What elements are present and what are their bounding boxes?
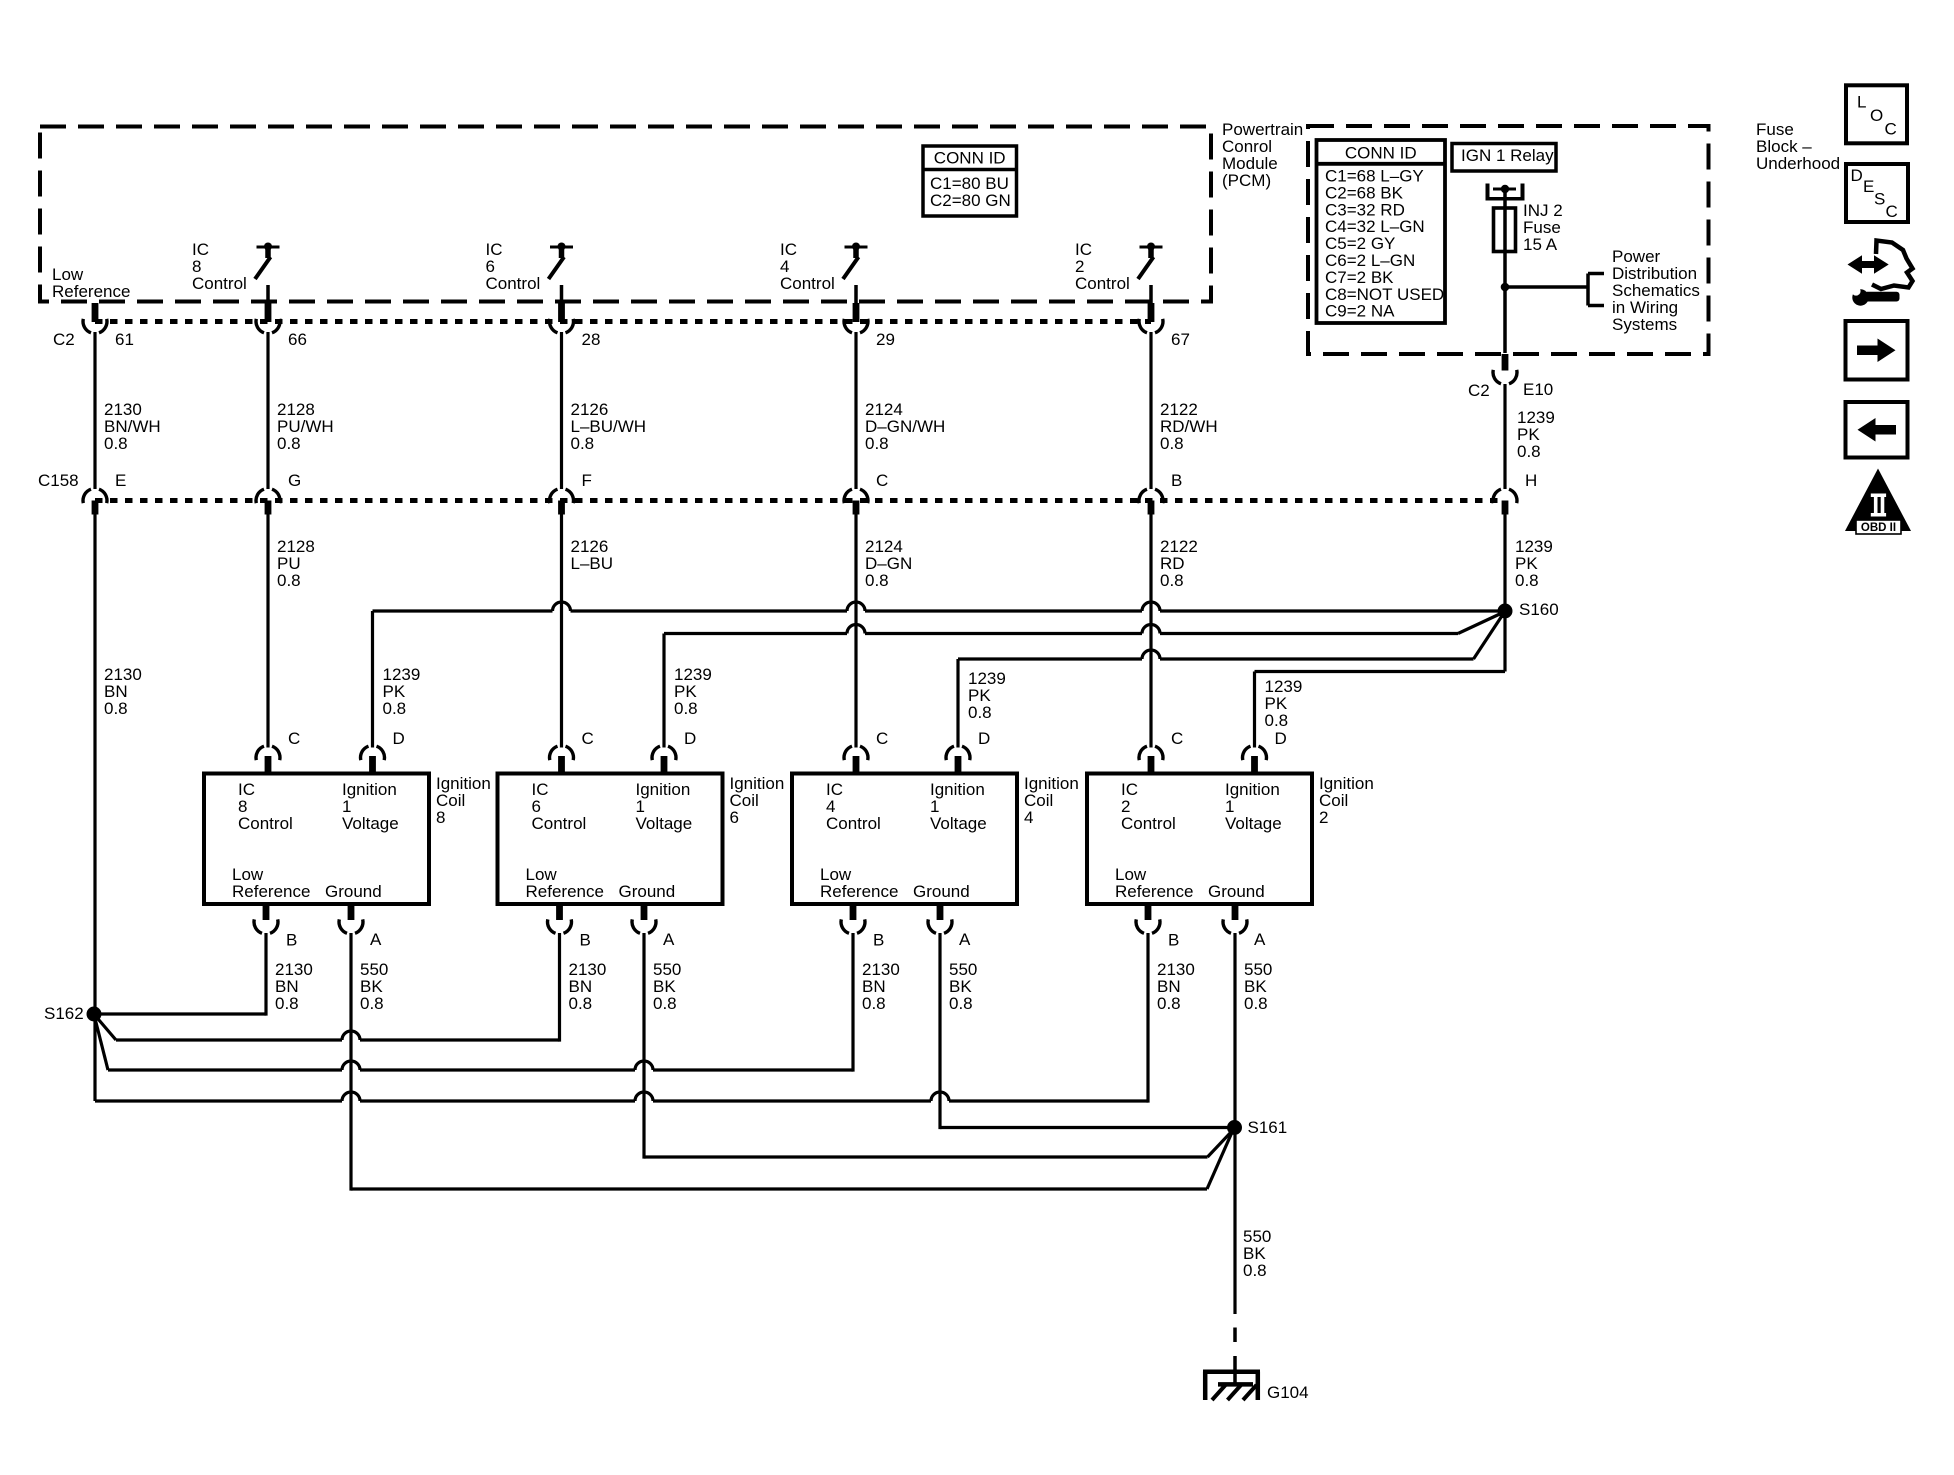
icon LOC box	[1846, 85, 1907, 143]
label 2130 BN 0.8 (coil 6)	[569, 960, 607, 1013]
svg-text:0.8: 0.8	[653, 994, 677, 1013]
PCM Powertrain Control Module dashed outline box	[40, 127, 1211, 302]
ground G104 symbol	[1203, 1372, 1260, 1400]
label Ground (coil pin)	[325, 882, 382, 901]
wire relay to fuse	[1503, 191, 1507, 208]
wire 1239 PK 0.8 (C158-H down to splice S160)	[1503, 514, 1506, 611]
wire 2128 (C158 down to ignition coil pin C)	[266, 514, 269, 748]
wire 550 BK coil 2 A through S161 to ground	[1233, 933, 1236, 1314]
label 2122 RD/WH 0.8	[1160, 400, 1218, 453]
svg-text:Control: Control	[826, 814, 881, 833]
coil 2 pin D (terminal)	[1243, 729, 1287, 776]
coil 8 pin B (terminal)	[254, 902, 297, 950]
svg-text:Underhood: Underhood	[1756, 154, 1840, 173]
label 2130 BN 0.8	[104, 665, 142, 718]
svg-text:A: A	[959, 930, 971, 949]
coil 8 pin A (terminal)	[339, 902, 382, 949]
svg-text:61: 61	[115, 330, 134, 349]
svg-text:4: 4	[1024, 808, 1033, 827]
label G104	[1267, 1383, 1309, 1402]
wire 2130 BN coil 4 B to S162	[95, 933, 854, 1072]
wire 2126 L–BU/WH 0.8 (C2 to C158)	[560, 332, 563, 489]
label 2128	[277, 537, 315, 590]
svg-text:B: B	[1168, 931, 1179, 950]
svg-text:0.8: 0.8	[1517, 442, 1541, 461]
connector C158 dotted harness line	[95, 498, 1505, 503]
coil 8 pin D (terminal)	[361, 729, 405, 776]
svg-text:D: D	[393, 729, 405, 748]
svg-text:H: H	[1525, 471, 1537, 490]
wire 2124 D–GN/WH 0.8 (C2 to C158)	[854, 332, 857, 489]
label Powertrain Conrol Module (PCM)	[1222, 120, 1303, 190]
wire 2126 (C158 down to ignition coil pin C)	[560, 514, 563, 748]
label INJ 2 Fuse 15 A	[1523, 201, 1563, 254]
coil 6 pin D (terminal)	[652, 729, 696, 776]
svg-text:Ground: Ground	[619, 882, 676, 901]
svg-text:0.8: 0.8	[674, 699, 698, 718]
label 2126	[571, 537, 614, 573]
svg-text:Control: Control	[486, 274, 541, 293]
coil 2 pin A (terminal)	[1223, 902, 1266, 949]
PCM CONN ID table	[923, 146, 1017, 216]
svg-text:CONN ID: CONN ID	[934, 149, 1006, 168]
label 2124	[865, 537, 912, 590]
svg-text:Voltage: Voltage	[930, 814, 987, 833]
svg-text:C: C	[1885, 120, 1897, 139]
svg-text:Reference: Reference	[820, 882, 898, 901]
label 2130 BN 0.8 (coil 8)	[275, 960, 313, 1013]
fuse block CONN ID table	[1317, 140, 1446, 323]
icon back arrow box	[1846, 402, 1908, 458]
label IC 2 Control	[1075, 240, 1130, 293]
label Low Reference (coil pin)	[232, 865, 310, 901]
svg-text:0.8: 0.8	[569, 994, 593, 1013]
svg-text:0.8: 0.8	[968, 703, 992, 722]
wire 1239 PK branch to ignition coil 2 pin D	[1255, 611, 1506, 748]
connector C158 pin F (female terminal + male stub)	[550, 471, 592, 515]
wire 550 BK coil 4 A to S161	[940, 933, 1235, 1129]
label 550 BK 0.8 (coil 2)	[1244, 960, 1272, 1013]
wire 550 BK dashed continuation	[1233, 1328, 1237, 1385]
connector C158 pin G (female terminal + male stub)	[256, 471, 301, 515]
wire 550 BK coil 8 A to S161	[351, 933, 1233, 1191]
svg-text:0.8: 0.8	[865, 571, 889, 590]
label IC 2 Control (coil pin)	[1121, 780, 1176, 833]
svg-text:C2: C2	[1468, 381, 1490, 400]
splice S162	[44, 1004, 102, 1023]
wire 2122 (C158 down to ignition coil pin C)	[1149, 514, 1152, 748]
label 2130 BN/WH 0.8	[104, 400, 161, 453]
svg-text:28: 28	[582, 330, 601, 349]
svg-text:15 A: 15 A	[1523, 235, 1558, 254]
svg-text:S161: S161	[1248, 1118, 1288, 1137]
label 1239 PK 0.8 (coil 2 feed)	[1265, 677, 1303, 730]
ignition coil 6 box	[498, 774, 723, 905]
connector C2 pin 66 (male stub + female terminal)	[256, 303, 307, 349]
svg-text:0.8: 0.8	[571, 434, 595, 453]
wire 550 BK coil 6 A to S161	[644, 933, 1234, 1159]
svg-text:B: B	[286, 931, 297, 950]
ignition coil 2 box	[1087, 774, 1312, 905]
label 2126 L–BU/WH 0.8	[571, 400, 647, 453]
wire 1239 PK branch to ignition coil 4 pin D	[958, 614, 1504, 748]
label Ground (coil pin)	[913, 882, 970, 901]
splice S160	[1498, 600, 1559, 619]
svg-text:L–BU: L–BU	[571, 554, 614, 573]
svg-text:C2=80 GN: C2=80 GN	[930, 191, 1011, 210]
svg-text:0.8: 0.8	[1160, 434, 1184, 453]
label Ignition Coil 8	[436, 774, 491, 827]
svg-text:0.8: 0.8	[383, 699, 407, 718]
svg-text:B: B	[873, 931, 884, 950]
svg-text:0.8: 0.8	[277, 434, 301, 453]
label Ground (coil pin)	[1208, 882, 1265, 901]
label IC 8 Control	[192, 240, 247, 293]
label Ignition Coil 6	[730, 774, 785, 827]
svg-text:A: A	[370, 930, 382, 949]
svg-text:G: G	[288, 471, 301, 490]
svg-text:OBD II: OBD II	[1861, 522, 1896, 534]
svg-text:A: A	[1254, 930, 1266, 949]
connector C2 pin 61 (male stub + female terminal)	[83, 303, 134, 349]
svg-text:8: 8	[436, 808, 445, 827]
svg-text:Control: Control	[1075, 274, 1130, 293]
svg-text:6: 6	[730, 808, 739, 827]
svg-text:B: B	[1171, 471, 1182, 490]
svg-text:D: D	[978, 729, 990, 748]
switch IC 2 Control (PCM driver)	[1138, 243, 1163, 304]
svg-text:0.8: 0.8	[1157, 994, 1181, 1013]
svg-text:Systems: Systems	[1612, 315, 1677, 334]
connector C158 pin E (female terminal + male stub)	[83, 471, 126, 515]
label Fuse Block - Underhood	[1756, 120, 1840, 173]
svg-text:0.8: 0.8	[949, 994, 973, 1013]
icon forward arrow box	[1846, 321, 1908, 380]
switch IC 6 Control (PCM driver)	[549, 243, 574, 304]
svg-text:2: 2	[1319, 808, 1328, 827]
label Low Reference (coil pin)	[820, 865, 898, 901]
coil 2 pin C (terminal)	[1139, 729, 1183, 776]
coil 2 pin B (terminal)	[1136, 902, 1179, 950]
svg-text:0.8: 0.8	[862, 994, 886, 1013]
label 1239 PK 0.8 (coil 6 feed)	[674, 665, 712, 718]
coil 8 pin C (terminal)	[256, 729, 300, 776]
connector C158 pin H (female terminal + male stub)	[1493, 471, 1537, 515]
svg-text:C2: C2	[53, 330, 75, 349]
reference bracket	[1588, 274, 1604, 306]
connector C2 pin 67 (male stub + female terminal)	[1139, 303, 1190, 349]
wire fuse to junction and E10	[1503, 252, 1507, 354]
svg-text:(PCM): (PCM)	[1222, 171, 1271, 190]
wire 2130 BN coil 8 B to S162	[101, 933, 266, 1016]
svg-text:A: A	[663, 930, 675, 949]
label 2130 BN 0.8 (coil 2)	[1157, 960, 1195, 1013]
svg-text:E: E	[1863, 177, 1874, 196]
label IC 6 Control	[486, 240, 541, 293]
svg-text:0.8: 0.8	[1515, 571, 1539, 590]
coil 4 pin C (terminal)	[844, 729, 888, 776]
svg-text:S160: S160	[1519, 600, 1559, 619]
svg-text:Ground: Ground	[913, 882, 970, 901]
fuse INJ 2 15 A	[1494, 208, 1516, 252]
label 550 BK 0.8 (coil 4)	[949, 960, 977, 1013]
svg-text:C: C	[1886, 202, 1898, 221]
wire junction to reference bracket	[1505, 285, 1588, 289]
connector C158 pin B (female terminal + male stub)	[1139, 471, 1182, 515]
svg-text:29: 29	[876, 330, 895, 349]
svg-text:Reference: Reference	[52, 282, 130, 301]
icon OBD II triangle symbol	[1845, 469, 1911, 535]
switch IC 8 Control (PCM driver)	[255, 243, 280, 304]
relay IGN 1 output contact	[1486, 184, 1525, 201]
coil 6 pin A (terminal)	[632, 902, 675, 949]
label IC 4 Control	[780, 240, 835, 293]
label 550 BK 0.8 (coil 8)	[360, 960, 388, 1013]
fuse block underhood dashed outline box	[1308, 126, 1709, 354]
label C2 (connector)	[53, 330, 75, 349]
label 2124 D–GN/WH 0.8	[865, 400, 945, 453]
IGN 1 Relay box	[1452, 144, 1556, 172]
label IC 8 Control (coil pin)	[238, 780, 293, 833]
wire 2130 BN coil 2 B to S162	[95, 933, 1148, 1103]
coil 4 pin D (terminal)	[946, 729, 990, 776]
svg-text:0.8: 0.8	[1160, 571, 1184, 590]
svg-text:C: C	[288, 729, 300, 748]
icon schematic navigation (arrows and wrench)	[1848, 241, 1913, 306]
label 550 BK 0.8 (ground wire)	[1243, 1227, 1271, 1280]
svg-text:C9=2 NA: C9=2 NA	[1325, 302, 1395, 321]
svg-text:Reference: Reference	[232, 882, 310, 901]
wire 2130 BN/WH 0.8 (C2 to C158)	[93, 332, 96, 489]
wire 2124 (C158 down to ignition coil pin C)	[854, 514, 857, 748]
label Ignition 1 Voltage (coil pin)	[636, 780, 693, 833]
svg-text:0.8: 0.8	[1265, 711, 1289, 730]
svg-text:C: C	[876, 729, 888, 748]
label C158 (connector)	[38, 471, 79, 490]
svg-text:0.8: 0.8	[360, 994, 384, 1013]
svg-text:D: D	[1851, 166, 1863, 185]
wire 2122 RD/WH 0.8 (C2 to C158)	[1149, 332, 1152, 489]
svg-text:IGN 1 Relay: IGN 1 Relay	[1461, 146, 1554, 165]
wire 1239 PK branch to ignition coil 8 pin D	[373, 602, 1506, 748]
label Low Reference (coil pin)	[1115, 865, 1193, 901]
svg-text:C: C	[1171, 729, 1183, 748]
svg-text:Ground: Ground	[325, 882, 382, 901]
svg-text:0.8: 0.8	[104, 699, 128, 718]
wire 2130 BN coil 6 B to S162	[96, 933, 560, 1042]
label 1239 PK 0.8 (coil 4 feed)	[968, 669, 1006, 722]
label Ignition 1 Voltage (coil pin)	[930, 780, 987, 833]
label 2128 PU/WH 0.8	[277, 400, 334, 453]
svg-text:Control: Control	[238, 814, 293, 833]
svg-text:Ground: Ground	[1208, 882, 1265, 901]
svg-text:Reference: Reference	[1115, 882, 1193, 901]
wire 1239 PK 0.8 (E10 to C158-H)	[1503, 384, 1506, 489]
connector C2 dotted harness line	[95, 319, 1151, 324]
svg-text:C158: C158	[38, 471, 79, 490]
svg-text:0.8: 0.8	[1243, 1261, 1267, 1280]
svg-text:D: D	[1275, 729, 1287, 748]
label Power Distribution Schematics in Wiring Systems	[1612, 247, 1700, 334]
label Ground (coil pin)	[619, 882, 676, 901]
svg-text:0.8: 0.8	[277, 571, 301, 590]
svg-text:0.8: 0.8	[104, 434, 128, 453]
svg-text:CONN ID: CONN ID	[1345, 144, 1417, 163]
label 2122	[1160, 537, 1198, 590]
connector C2 pin 29 (male stub + female terminal)	[844, 303, 895, 349]
svg-text:E10: E10	[1523, 380, 1553, 399]
wire 2130 BN 0.8 (C158-E down to splice S162)	[93, 514, 96, 1014]
splice S161	[1227, 1118, 1287, 1137]
wire 2128 PU/WH 0.8 (C2 to C158)	[266, 332, 269, 489]
svg-text:C: C	[876, 471, 888, 490]
svg-text:0.8: 0.8	[1244, 994, 1268, 1013]
junction node (power distribution tap)	[1501, 283, 1510, 292]
label 2130 BN 0.8 (coil 4)	[862, 960, 900, 1013]
svg-text:S162: S162	[44, 1004, 84, 1023]
svg-text:Voltage: Voltage	[636, 814, 693, 833]
switch IC 4 Control (PCM driver)	[843, 243, 868, 304]
label 1239 PK 0.8 (coil 8 feed)	[383, 665, 421, 718]
svg-text:D: D	[684, 729, 696, 748]
svg-text:S: S	[1874, 190, 1885, 209]
svg-text:0.8: 0.8	[865, 434, 889, 453]
svg-text:L: L	[1857, 93, 1866, 112]
svg-text:C: C	[582, 729, 594, 748]
label IC 4 Control (coil pin)	[826, 780, 881, 833]
label Low Reference (coil pin)	[526, 865, 604, 901]
coil 4 pin A (terminal)	[928, 902, 971, 949]
svg-text:Control: Control	[1121, 814, 1176, 833]
label Ignition Coil 4	[1024, 774, 1079, 827]
label Ignition 1 Voltage (coil pin)	[342, 780, 399, 833]
svg-text:Reference: Reference	[526, 882, 604, 901]
svg-text:B: B	[580, 931, 591, 950]
svg-text:Control: Control	[780, 274, 835, 293]
connector C158 pin C (female terminal + male stub)	[844, 471, 888, 515]
connector C2 pin 28 (male stub + female terminal)	[550, 303, 601, 349]
label 1239 PK 0.8 (E10 wire)	[1517, 408, 1555, 461]
ignition coil 8 box	[204, 774, 429, 905]
svg-text:O: O	[1870, 106, 1883, 125]
svg-text:Control: Control	[192, 274, 247, 293]
label Ignition 1 Voltage (coil pin)	[1225, 780, 1282, 833]
svg-text:67: 67	[1171, 330, 1190, 349]
svg-text:Voltage: Voltage	[1225, 814, 1282, 833]
ignition coil 4 box	[792, 774, 1017, 905]
connector C2 pin E10 (male stub + female terminal)	[1468, 354, 1553, 400]
svg-text:Voltage: Voltage	[342, 814, 399, 833]
svg-text:G104: G104	[1267, 1383, 1309, 1402]
coil 6 pin B (terminal)	[548, 902, 591, 950]
svg-text:0.8: 0.8	[275, 994, 299, 1013]
svg-text:F: F	[582, 471, 592, 490]
icon DESC box	[1846, 164, 1908, 222]
svg-text:66: 66	[288, 330, 307, 349]
wire 1239 PK branch to ignition coil 6 pin D	[664, 613, 1503, 748]
label 1239 PK 0.8 (below C158 H)	[1515, 537, 1553, 590]
label IC 6 Control (coil pin)	[532, 780, 587, 833]
label Ignition Coil 2	[1319, 774, 1374, 827]
svg-text:Control: Control	[532, 814, 587, 833]
coil 6 pin C (terminal)	[550, 729, 594, 776]
label 550 BK 0.8 (coil 6)	[653, 960, 681, 1013]
coil 4 pin B (terminal)	[841, 902, 884, 950]
label Low Reference (PCM pin function)	[52, 265, 130, 301]
svg-text:E: E	[115, 471, 126, 490]
